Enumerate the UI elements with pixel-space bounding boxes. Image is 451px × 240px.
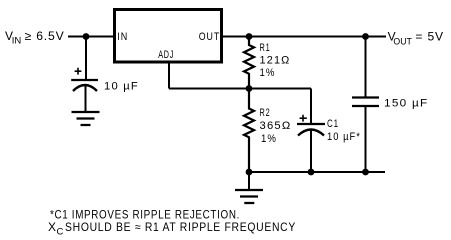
svg-text:OUT: OUT <box>393 37 412 48</box>
svg-text:= 5V: = 5V <box>415 30 444 44</box>
ground under Cin <box>72 112 100 125</box>
wire 150uF bottom vertical <box>365 107 367 172</box>
node R1 top junction <box>246 33 253 40</box>
regulator U1 box <box>115 10 222 63</box>
svg-text:R2: R2 <box>260 107 271 119</box>
wire rail to ground <box>248 172 250 189</box>
svg-text:121Ω: 121Ω <box>260 55 291 67</box>
node 150uF top junction <box>362 33 369 40</box>
wire OUT output horizontal <box>223 36 386 38</box>
resistor R2 <box>244 89 254 173</box>
node ADJ junction <box>246 85 253 92</box>
resistor R1 <box>244 37 254 89</box>
svg-text:ADJ: ADJ <box>158 49 174 61</box>
svg-text:1%: 1% <box>261 133 277 145</box>
svg-text:150 µF: 150 µF <box>384 98 429 110</box>
capacitor Cin plus sign <box>75 68 82 75</box>
svg-text:SHOULD BE ≈ R1 AT RIPPLE FREQU: SHOULD BE ≈ R1 AT RIPPLE FREQUENCY <box>65 220 296 234</box>
capacitor Cin curved plate <box>73 85 97 91</box>
svg-text:OUT: OUT <box>199 31 221 43</box>
wire ADJ horizontal to C1 <box>169 88 311 90</box>
svg-text:10 µF: 10 µF <box>104 81 139 93</box>
capacitor C2 150uF bottom plate <box>352 105 379 107</box>
wire C1 top vertical <box>310 89 312 124</box>
svg-text:R1: R1 <box>260 42 271 54</box>
wire VIN input horizontal <box>68 36 114 38</box>
capacitor Cin plus plate <box>71 79 98 81</box>
capacitor C2 150uF top plate <box>352 96 379 98</box>
capacitor C1 curved plate <box>298 130 324 136</box>
svg-text:X: X <box>48 220 57 234</box>
node input junction <box>83 33 90 40</box>
wire C1 bottom vertical <box>310 130 312 173</box>
svg-text:C1: C1 <box>327 118 339 130</box>
capacitor C1 plus plate <box>297 123 325 125</box>
svg-text:≥ 6.5V: ≥ 6.5V <box>25 29 65 43</box>
svg-text:1%: 1% <box>260 67 276 79</box>
svg-text:C: C <box>57 227 64 238</box>
wire Cin to ground <box>85 85 87 111</box>
wire 150uF top vertical <box>365 37 367 97</box>
svg-text:IN: IN <box>117 31 128 43</box>
svg-text:365Ω: 365Ω <box>260 120 292 132</box>
ground under rail <box>235 190 263 203</box>
wire ground rail bottom <box>249 171 385 173</box>
svg-text:IN: IN <box>12 36 22 47</box>
wire input cap branch vertical <box>85 37 87 80</box>
capacitor C1 plus sign <box>300 115 307 122</box>
svg-text:10 µF*: 10 µF* <box>327 131 361 143</box>
node rail C1 junction <box>308 169 315 176</box>
node rail R2 junction <box>246 169 253 176</box>
node rail 150uF junction <box>362 169 369 176</box>
wire ADJ vertical stub <box>168 63 170 89</box>
